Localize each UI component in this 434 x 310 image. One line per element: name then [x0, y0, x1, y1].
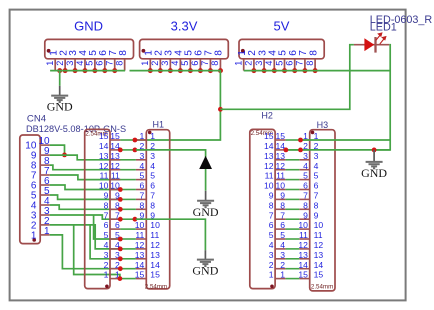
- junction dot on GND header P1 pin row: [112, 68, 117, 73]
- LED D1 lead line: [354, 44, 389, 46]
- B1 pin 8 line: [110, 208, 120, 210]
- wire row 4 of right pair: [286, 169, 300, 171]
- svg-text:13: 13: [110, 151, 120, 161]
- connector 5V header P3 pin 3 line: [263, 59, 265, 71]
- junction dot ground tap: [372, 148, 377, 153]
- H3 pin 9 line: [299, 218, 309, 220]
- LED D1 emission arrows: [376, 33, 386, 44]
- svg-text:2: 2: [55, 61, 65, 66]
- svg-text:8: 8: [214, 50, 225, 56]
- svg-text:9: 9: [104, 191, 109, 201]
- H2 pin 8 line: [275, 208, 286, 210]
- junction dot 3.3V branch: [218, 107, 223, 112]
- svg-text:8: 8: [305, 61, 315, 66]
- svg-text:GND: GND: [74, 19, 103, 34]
- connector 5V header P3 pin 5 line: [284, 59, 286, 71]
- wire row 14 of right pair: [286, 268, 300, 270]
- junction dot left pair row 6 (B1 side): [118, 187, 123, 192]
- wire row 9 of right pair: [286, 218, 300, 220]
- wire row 12 of right pair: [286, 248, 300, 250]
- svg-text:H1: H1: [153, 120, 165, 130]
- junction dot on 3.3V header P2 pin row: [178, 68, 183, 73]
- wire row 1 of right pair: [286, 139, 300, 141]
- H2 pin 10 line: [275, 189, 286, 191]
- svg-text:1: 1: [150, 131, 155, 141]
- H3 pin 11 line: [299, 238, 309, 240]
- svg-text:7: 7: [150, 191, 155, 201]
- svg-text:13: 13: [264, 151, 274, 161]
- connector CN4 pin 7 line: [40, 174, 50, 176]
- connector CN4 pin 9 line: [40, 154, 50, 156]
- ground lead GND#1: [59, 86, 61, 96]
- svg-text:H2: H2: [261, 111, 273, 121]
- connector 3.3V header P2 pin 5 line: [189, 59, 191, 71]
- svg-text:4: 4: [269, 240, 274, 250]
- connector GND header P1: body: [45, 39, 134, 58]
- svg-text:5: 5: [85, 61, 95, 66]
- wire row 7 of left pair: [120, 198, 135, 200]
- H2 pin 12 line: [275, 169, 286, 171]
- svg-text:8: 8: [210, 61, 220, 66]
- svg-text:10: 10: [135, 220, 145, 230]
- connector 5V header P3: body: [239, 39, 324, 58]
- svg-text:15: 15: [110, 131, 120, 141]
- wire branch to row15: [74, 225, 121, 279]
- H1 pin 10 line: [136, 228, 146, 230]
- svg-text:13: 13: [298, 250, 308, 260]
- svg-text:8: 8: [118, 50, 129, 56]
- connector 3.3V header P2: body: [140, 39, 229, 58]
- svg-text:12: 12: [99, 161, 109, 171]
- wire row 3 of right pair: [286, 159, 300, 161]
- svg-text:8: 8: [303, 200, 308, 210]
- connector B1 pin-1 marker dot: [105, 285, 109, 289]
- net port arrow: [199, 156, 212, 169]
- connector CN4 pin 4 line: [40, 204, 50, 206]
- junction dot left pair row 11 (B1 side): [118, 237, 123, 242]
- connector CN4 pin 1 line: [40, 234, 50, 236]
- H3 pin 5 line: [299, 179, 309, 181]
- junction dot on 3.3V header P2 pin row: [198, 68, 203, 73]
- H1 pin 3 line: [136, 159, 146, 161]
- svg-text:15: 15: [314, 270, 324, 280]
- ground lead GND#4: [373, 150, 375, 162]
- svg-text:7: 7: [200, 61, 210, 66]
- svg-text:13: 13: [275, 151, 285, 161]
- connector 5V header P3 pin 2 line: [253, 59, 255, 71]
- H3 pin 6 line: [299, 189, 309, 191]
- svg-text:11: 11: [299, 230, 308, 240]
- svg-text:15: 15: [264, 131, 274, 141]
- svg-text:2.54mm: 2.54mm: [311, 284, 333, 291]
- connector 3.3V header P2 pin 7 line: [209, 59, 211, 71]
- svg-text:9: 9: [269, 191, 274, 201]
- wire row 10 of left pair: [120, 228, 135, 230]
- wire row 4 of left pair: [120, 169, 135, 171]
- wire row 12 of left pair: [120, 248, 135, 250]
- H2 pin 13 line: [275, 159, 286, 161]
- svg-text:7: 7: [280, 210, 285, 220]
- svg-text:1: 1: [280, 270, 285, 280]
- H1 pin 5 line: [136, 179, 146, 181]
- svg-text:12: 12: [150, 240, 160, 250]
- wire row 6 of right pair: [286, 189, 300, 191]
- wire CN4 pin8 to row4: [50, 165, 121, 170]
- svg-text:1: 1: [140, 61, 150, 66]
- svg-text:3.3V: 3.3V: [171, 19, 198, 34]
- connector 5V header P3 pin 1 line: [243, 59, 245, 71]
- wire row 5 of right pair: [286, 179, 300, 181]
- svg-text:8: 8: [269, 200, 274, 210]
- connector GND header P1 pin 8 line: [124, 59, 126, 71]
- B1 pin 15 line: [110, 139, 120, 141]
- H3 pin 15 line: [299, 278, 309, 280]
- svg-text:3: 3: [303, 151, 308, 161]
- B1 pin 7 line: [110, 218, 120, 220]
- wire CN4 pin5 to row7: [50, 195, 121, 199]
- svg-text:6: 6: [150, 181, 155, 191]
- connector GND header P1 pin 4 line: [84, 59, 86, 71]
- svg-text:3: 3: [104, 250, 109, 260]
- wire CN4 pin1 to row14: [50, 235, 121, 269]
- H2 pin 5 line: [275, 238, 286, 240]
- svg-text:2: 2: [280, 260, 285, 270]
- wire row 2 of left pair: [120, 149, 135, 151]
- wire row 8 of right pair: [286, 208, 300, 210]
- svg-text:13: 13: [314, 250, 324, 260]
- junction dot on 3.3V header P2 pin row: [158, 68, 163, 73]
- wire CN4 pin2 to row12: [50, 225, 121, 249]
- ground symbol GND#2: [197, 201, 214, 207]
- wire row 15 of right pair: [286, 278, 300, 280]
- junction dot left pair row 7 (B1 side): [118, 197, 123, 202]
- LED D1 cathode bar: [374, 37, 376, 53]
- svg-text:3: 3: [254, 61, 264, 66]
- svg-text:1: 1: [269, 270, 274, 280]
- junction dot right pair row1: [298, 138, 303, 143]
- wire row 14 of left pair: [120, 268, 135, 270]
- svg-text:10: 10: [314, 220, 324, 230]
- wire right pair row2 to ground tap: [286, 149, 391, 151]
- wire 5V bus to LED cathode column: [244, 70, 391, 72]
- junction dot right pair row2 (H2 side): [284, 148, 289, 153]
- svg-text:12: 12: [264, 161, 274, 171]
- svg-text:6: 6: [303, 181, 308, 191]
- junction dot on 3.3V header P2 pin row: [168, 68, 173, 73]
- svg-text:5: 5: [150, 171, 155, 181]
- wire CN4 pin3 to row9: [50, 215, 121, 219]
- connector 5V header P3 pin 8 line: [314, 59, 316, 71]
- junction dot on GND header P1 pin row: [63, 68, 68, 73]
- svg-text:11: 11: [276, 171, 285, 181]
- junction dot right pair row2 (H3 side): [298, 148, 303, 153]
- junction dot on GND header P1 pin row: [102, 68, 107, 73]
- B1 pin 2 line: [110, 268, 120, 270]
- connector CN4 pin 8 line: [40, 164, 50, 166]
- B1 pin 6 line: [110, 228, 120, 230]
- B1 pin 14 line: [110, 149, 120, 151]
- svg-text:3: 3: [280, 250, 285, 260]
- H2 pin 9 line: [275, 198, 286, 200]
- H3 pin 2 line: [299, 149, 309, 151]
- svg-text:6: 6: [140, 181, 145, 191]
- svg-text:GND: GND: [193, 205, 219, 219]
- svg-text:12: 12: [314, 240, 324, 250]
- H1 pin 11 line: [136, 238, 146, 240]
- junction dot on GND header P1 pin row: [73, 68, 78, 73]
- H2 pin 14 line: [275, 149, 286, 151]
- svg-text:4: 4: [150, 161, 155, 171]
- junction dot on GND header P1 pin row: [92, 68, 97, 73]
- svg-text:3: 3: [160, 61, 170, 66]
- svg-text:LED1: LED1: [370, 21, 397, 33]
- connector H2 body: [250, 129, 275, 288]
- wire CN4 pin9 to row3: [50, 155, 121, 160]
- svg-text:13: 13: [99, 151, 109, 161]
- ground symbol GND#3: [197, 260, 214, 266]
- svg-text:1: 1: [45, 61, 55, 66]
- svg-text:8: 8: [140, 200, 145, 210]
- H2 pin 1 line: [275, 278, 286, 280]
- B1 pin 5 line: [110, 238, 120, 240]
- H1 pin 14 line: [136, 268, 146, 270]
- H1 pin 13 line: [136, 258, 146, 260]
- junction dot on 5V header P3 pin row: [282, 68, 287, 73]
- H1 pin 1 line: [136, 139, 146, 141]
- svg-text:5: 5: [104, 230, 109, 240]
- svg-text:15: 15: [135, 270, 145, 280]
- svg-text:14: 14: [314, 260, 324, 270]
- svg-text:4: 4: [303, 161, 308, 171]
- H3 pin 7 line: [299, 198, 309, 200]
- svg-text:3: 3: [269, 250, 274, 260]
- connector CN4 body: [20, 135, 40, 244]
- H3 pin 3 line: [299, 159, 309, 161]
- svg-text:12: 12: [110, 161, 120, 171]
- svg-text:5: 5: [140, 171, 145, 181]
- H2 pin 2 line: [275, 268, 286, 270]
- svg-text:1: 1: [140, 131, 145, 141]
- svg-text:2: 2: [104, 260, 109, 270]
- svg-text:11: 11: [99, 171, 108, 181]
- H2 pin 4 line: [275, 248, 286, 250]
- H2 pin 6 line: [275, 228, 286, 230]
- svg-text:5: 5: [269, 230, 274, 240]
- wire row 10 of right pair: [286, 228, 300, 230]
- svg-text:GND: GND: [192, 264, 218, 278]
- connector 5V header P3 pin-1 marker dot: [241, 49, 245, 53]
- connector GND header P1 pin 1 line: [54, 59, 56, 71]
- svg-text:11: 11: [314, 230, 323, 240]
- wire row 9 of left pair: [120, 218, 135, 220]
- svg-text:5: 5: [274, 61, 284, 66]
- svg-text:10: 10: [275, 181, 285, 191]
- H1 pin 4 line: [136, 169, 146, 171]
- wire CN4 pin6 to row6: [50, 185, 121, 190]
- svg-text:14: 14: [99, 141, 109, 151]
- junction dot left pair row 14 (B1 side): [118, 266, 123, 271]
- wire row 3 of left pair: [120, 159, 135, 161]
- junction dot on 5V header P3 pin row: [292, 68, 297, 73]
- svg-text:2: 2: [244, 61, 254, 66]
- svg-text:13: 13: [150, 250, 160, 260]
- H2 pin 11 line: [275, 179, 286, 181]
- H2 pin 3 line: [275, 258, 286, 260]
- svg-text:1: 1: [31, 230, 37, 241]
- svg-text:4: 4: [280, 240, 285, 250]
- H3 pin 10 line: [299, 228, 309, 230]
- junction dot left pair row 1 (H1 side): [133, 138, 138, 143]
- connector 3.3V header P2 pin-1 marker dot: [142, 49, 146, 53]
- connector GND header P1 pin 3 line: [74, 59, 76, 71]
- svg-text:9: 9: [280, 191, 285, 201]
- svg-text:8: 8: [114, 61, 124, 66]
- svg-text:7: 7: [295, 61, 305, 66]
- junction dot on 3.3V header P2 pin row: [148, 68, 153, 73]
- B1 pin 13 line: [110, 159, 120, 161]
- wire right pair row1 to LED cathode column: [299, 139, 390, 141]
- svg-text:6: 6: [115, 220, 120, 230]
- svg-text:3: 3: [150, 151, 155, 161]
- H3 pin 12 line: [299, 248, 309, 250]
- junction dot on 3.3V header P2 pin row: [188, 68, 193, 73]
- svg-text:10: 10: [298, 220, 308, 230]
- wire row 15 of left pair: [120, 278, 135, 280]
- svg-text:6: 6: [285, 61, 295, 66]
- svg-text:2.54mm: 2.54mm: [145, 284, 167, 291]
- junction dot on 3.3V header P2 pin row: [208, 68, 213, 73]
- H2 pin 7 line: [275, 218, 286, 220]
- junction dot left pair row 9 (B1 side): [118, 217, 123, 222]
- wire 3.3V bus to H1 pair row 1: [130, 71, 221, 140]
- connector 5V header P3 pin 4 line: [273, 59, 275, 71]
- B1 pin 1 line: [110, 278, 120, 280]
- junction dot on 3.3V header P2 pin row: [218, 68, 223, 73]
- svg-text:10: 10: [264, 181, 274, 191]
- svg-text:2: 2: [269, 260, 274, 270]
- H1 pin 12 line: [136, 248, 146, 250]
- svg-text:4: 4: [140, 161, 145, 171]
- svg-text:14: 14: [150, 260, 160, 270]
- junction dot on 5V header P3 pin row: [251, 68, 256, 73]
- wire row 6 of left pair: [120, 189, 135, 191]
- junction dot left pair row 12 (B1 side): [118, 247, 123, 252]
- svg-text:14: 14: [264, 141, 274, 151]
- svg-text:10: 10: [150, 220, 160, 230]
- wire row 1 of left pair: [120, 139, 135, 141]
- svg-text:5: 5: [280, 230, 285, 240]
- junction dot on 5V header P3 pin row: [272, 68, 277, 73]
- junction dot left pair row 13 (B1 side): [118, 256, 123, 261]
- svg-text:15: 15: [99, 131, 109, 141]
- H3 pin 4 line: [299, 169, 309, 171]
- connector 3.3V header P2 pin 3 line: [169, 59, 171, 71]
- connector GND header P1 pin 2 line: [64, 59, 66, 71]
- connector GND header P1 pin 5 line: [94, 59, 96, 71]
- connector 3.3V header P2 pin 8 line: [219, 59, 221, 71]
- svg-text:10: 10: [99, 181, 109, 191]
- wire row 13 of left pair: [120, 258, 135, 260]
- svg-text:15: 15: [150, 270, 160, 280]
- svg-text:8: 8: [150, 200, 155, 210]
- connector GND header P1 pin-1 marker dot: [47, 49, 51, 53]
- connector CN4 pin 5 line: [40, 194, 50, 196]
- wire CN4 pin7 to row5: [50, 175, 121, 180]
- connector H3 pin-1 marker dot: [311, 131, 315, 135]
- svg-text:11: 11: [150, 230, 159, 240]
- wire row 5 of left pair: [120, 179, 135, 181]
- svg-text:4: 4: [75, 61, 85, 66]
- wire CN4 pin4 to row8: [50, 205, 121, 209]
- svg-text:8: 8: [308, 50, 319, 56]
- svg-text:3: 3: [314, 151, 319, 161]
- connector GND header P1 pin 6 line: [104, 59, 106, 71]
- svg-text:6: 6: [314, 181, 319, 191]
- svg-text:6: 6: [95, 61, 105, 66]
- H3 pin 13 line: [299, 258, 309, 260]
- B1 pin 9 line: [110, 198, 120, 200]
- wire row 7 of right pair: [286, 198, 300, 200]
- B1 pin 11 line: [110, 179, 120, 181]
- svg-text:15: 15: [298, 270, 308, 280]
- svg-text:2: 2: [150, 61, 160, 66]
- junction dot on GND header P1 pin row: [57, 68, 62, 73]
- connector B1 body (left half of H1 pair): [85, 129, 110, 288]
- LED D1 triangle: [364, 38, 374, 51]
- connector CN4 pin 2 line: [40, 224, 50, 226]
- svg-text:6: 6: [280, 220, 285, 230]
- connector 3.3V header P2 pin 6 line: [199, 59, 201, 71]
- svg-text:GND: GND: [47, 100, 73, 114]
- svg-text:H3: H3: [317, 120, 329, 130]
- junction dot left pair row 2 (B1 side): [118, 148, 123, 153]
- svg-text:4: 4: [314, 161, 319, 171]
- H3 pin 14 line: [299, 268, 309, 270]
- connector 3.3V header P2 pin 4 line: [179, 59, 181, 71]
- svg-text:12: 12: [298, 240, 308, 250]
- H1 pin 9 line: [136, 218, 146, 220]
- ground symbol GND#4: [366, 162, 383, 168]
- connector 5V header P3 pin 6 line: [294, 59, 296, 71]
- svg-text:9: 9: [303, 210, 308, 220]
- svg-text:11: 11: [265, 171, 274, 181]
- junction dot CN4 pin10/pin9: [62, 153, 67, 158]
- svg-text:11: 11: [111, 171, 120, 181]
- connector CN4 pin 3 line: [40, 214, 50, 216]
- junction dot on 5V header P3 pin row: [302, 68, 307, 73]
- svg-text:GND: GND: [361, 166, 387, 180]
- H1 pin 7 line: [136, 198, 146, 200]
- svg-text:7: 7: [269, 210, 274, 220]
- connector CN4 pin-1 marker dot: [32, 238, 36, 242]
- H1 pin 8 line: [136, 208, 146, 210]
- wire row 11 of left pair: [120, 238, 135, 240]
- H1 pin 6 line: [136, 189, 146, 191]
- svg-text:7: 7: [104, 210, 109, 220]
- wire branch to row11: [94, 215, 121, 239]
- wire CN4 pin10 to bus: [50, 145, 65, 155]
- svg-text:8: 8: [314, 200, 319, 210]
- svg-text:7: 7: [303, 191, 308, 201]
- B1 pin 3 line: [110, 258, 120, 260]
- H3 pin 8 line: [299, 208, 309, 210]
- svg-text:4: 4: [170, 61, 180, 66]
- ground symbol GND#1: [51, 96, 68, 102]
- junction dot left pair row 15 (B1 side): [118, 276, 123, 281]
- svg-text:12: 12: [135, 240, 145, 250]
- connector CN4 pin 10 line: [40, 144, 50, 146]
- svg-text:7: 7: [140, 191, 145, 201]
